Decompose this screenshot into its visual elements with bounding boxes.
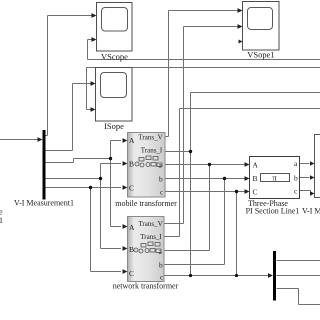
svg-text:π: π — [272, 173, 277, 183]
svg-text:VSope1: VSope1 — [247, 50, 274, 60]
svg-text:V-I Me: V-I Me — [302, 207, 320, 216]
svg-text:PI Section Line1: PI Section Line1 — [246, 207, 300, 216]
svg-text:C: C — [253, 188, 258, 197]
svg-text:VScope: VScope — [101, 52, 128, 62]
svg-text:ISope: ISope — [104, 121, 124, 131]
svg-text:network transformer: network transformer — [113, 282, 179, 291]
svg-text:V-I Measurement1: V-I Measurement1 — [14, 199, 74, 208]
svg-text:Trans_I: Trans_I — [140, 233, 162, 241]
svg-text:b: b — [159, 261, 163, 270]
svg-text:B: B — [253, 174, 258, 183]
svg-text:B: B — [129, 160, 134, 169]
svg-text:C: C — [129, 269, 134, 278]
svg-text:C: C — [129, 184, 134, 193]
svg-text:Trans_V: Trans_V — [138, 134, 162, 142]
svg-text:e1: e1 — [0, 216, 3, 225]
svg-text:A: A — [129, 223, 135, 232]
svg-text:B: B — [129, 245, 134, 254]
svg-text:b: b — [159, 175, 163, 184]
svg-text:Trans_V: Trans_V — [138, 220, 162, 228]
svg-text:A: A — [129, 136, 135, 145]
svg-text:Trans_I: Trans_I — [141, 147, 163, 155]
svg-text:A: A — [253, 161, 259, 170]
svg-text:b: b — [294, 174, 298, 183]
svg-text:mobile transformer: mobile transformer — [115, 199, 177, 208]
